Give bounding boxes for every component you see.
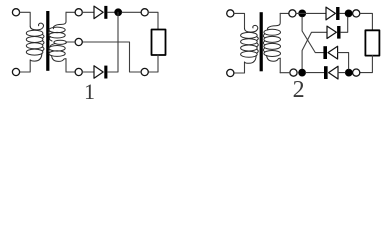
junction dot top: [114, 8, 122, 16]
diode D3' (points left): [328, 46, 338, 59]
diode D2' (second row) anode wire + diagonal to bottom node: [302, 32, 327, 69]
wire secondary bottom to D2: [66, 68, 94, 75]
wire D4' anode to output bottom: [338, 72, 345, 74]
terminal secondary bottom: [75, 68, 82, 75]
diode D4' (points left): [329, 66, 338, 79]
label 1: [84, 79, 95, 105]
wire junction to output terminal: [122, 11, 141, 13]
junction dot output top: [345, 10, 353, 18]
wire tap to winding: [66, 41, 75, 43]
resistor R1: [152, 30, 166, 56]
wire primary top lead 2: [234, 13, 245, 28]
wire primary bottom lead: [20, 60, 31, 72]
wire to resistor 2 top: [360, 13, 373, 30]
diode D1 (top): [94, 6, 103, 19]
wire terminal to center tap: [82, 42, 141, 72]
center-tap curl: [54, 40, 67, 44]
bridge input terminal bottom: [290, 69, 297, 76]
terminal primary bottom-left: [12, 68, 19, 75]
bridge input terminal top: [289, 10, 296, 17]
diode D1' cathode bar: [336, 7, 339, 20]
diode D1 cathode bar: [104, 6, 107, 19]
wire primary bottom lead 2: [234, 62, 245, 73]
wire secondary 2 top to bridge: [280, 12, 289, 14]
wire node B to D4': [306, 72, 324, 74]
diagonal from node A down to D3': [302, 17, 323, 53]
label 2: [293, 77, 305, 104]
diode D2 cathode bar: [104, 66, 107, 79]
wire primary top lead: [20, 12, 31, 26]
wire node A to D1: [296, 12, 326, 14]
junction dot output bottom: [345, 69, 353, 77]
diode D1' (bridge top): [326, 7, 335, 20]
transformer T2 primary winding: [241, 25, 259, 63]
wire secondary 2 bottom to bridge: [280, 72, 290, 74]
transformer T1 secondary winding: [48, 12, 66, 72]
wire terminal to resistor top: [148, 12, 158, 29]
wire resistor bottom to output terminal bottom: [148, 55, 158, 72]
transformer T2 secondary winding: [263, 13, 280, 72]
terminal primary top-left 2: [227, 10, 234, 17]
resistor R2: [365, 30, 379, 55]
diode D2': [327, 26, 336, 38]
transformer T2 core: [260, 12, 263, 71]
output terminal bottom 2: [353, 69, 360, 76]
wire D3' anode down to output bottom: [338, 53, 349, 69]
wire resistor 2 bottom: [360, 56, 372, 73]
output terminal top 2: [353, 10, 360, 17]
output terminal bottom: [141, 68, 148, 75]
wire D1' to output node: [340, 12, 345, 14]
junction dot bridge bottom-left: [298, 69, 306, 77]
junction dot bridge top-left: [298, 10, 306, 18]
terminal primary bottom-left 2: [227, 69, 234, 76]
diode D3' cathode bar: [323, 46, 327, 59]
diode D2 (bottom): [94, 66, 103, 79]
diode D4' cathode bar: [324, 66, 328, 79]
transformer T1 core: [46, 11, 49, 71]
wire D2 up to junction: [107, 12, 118, 72]
diode D2' cathode bar: [337, 26, 340, 39]
terminal primary top-left: [12, 9, 19, 16]
wire secondary top to D1: [66, 9, 94, 16]
output terminal top: [141, 9, 148, 16]
center tap terminal: [75, 38, 82, 45]
wire D2' cathode up to output top: [341, 17, 348, 32]
terminal secondary top: [75, 9, 82, 16]
transformer T1 primary winding: [26, 23, 44, 61]
wire D1 to junction: [107, 11, 114, 13]
